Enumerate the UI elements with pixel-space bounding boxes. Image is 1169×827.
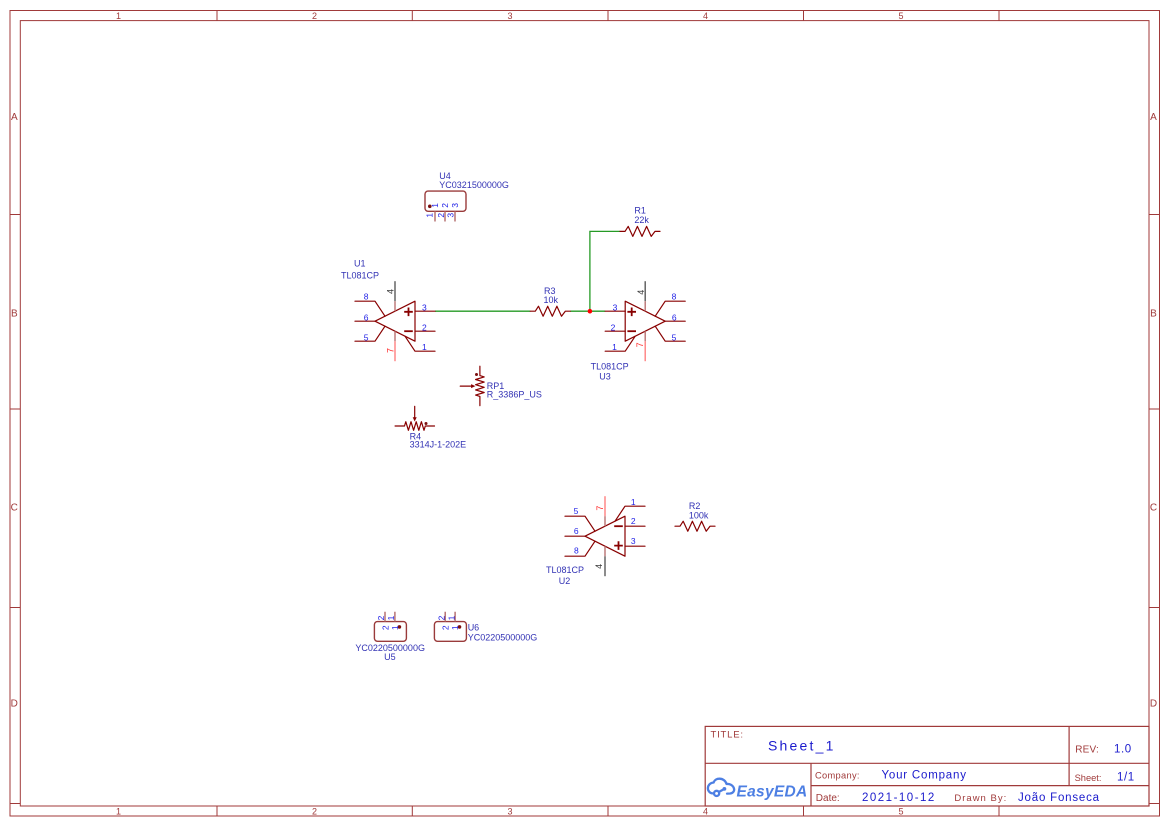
svg-text:2: 2 [631, 516, 636, 526]
svg-text:3: 3 [507, 11, 512, 21]
svg-text:TL081CP: TL081CP [341, 270, 379, 280]
svg-text:3: 3 [422, 302, 427, 312]
svg-text:Sheet:: Sheet: [1075, 773, 1102, 783]
svg-text:Company:: Company: [815, 770, 860, 780]
svg-text:3: 3 [446, 213, 456, 218]
connector U5 pin-1 dot [398, 625, 402, 629]
frame column ticks bottom [217, 806, 999, 816]
connector U4 pin-1 dot [428, 205, 432, 209]
svg-text:TL081CP: TL081CP [591, 361, 629, 371]
svg-text:7: 7 [635, 342, 645, 347]
svg-text:U5: U5 [384, 652, 396, 662]
svg-text:TITLE:: TITLE: [711, 730, 744, 741]
svg-text:João Fonseca: João Fonseca [1018, 792, 1100, 804]
svg-text:R_3386P_US: R_3386P_US [487, 390, 542, 400]
svg-text:2: 2 [312, 806, 317, 816]
frame row ticks right [1149, 215, 1160, 804]
svg-text:TL081CP: TL081CP [546, 565, 584, 575]
svg-text:7: 7 [385, 348, 395, 353]
title block divider logo cell [810, 763, 812, 806]
connector U6 pin-1 dot [458, 625, 462, 629]
svg-text:REV:: REV: [1075, 744, 1099, 755]
svg-text:2: 2 [440, 203, 450, 208]
connector U5 pins [385, 612, 395, 622]
svg-text:A: A [1150, 112, 1157, 123]
svg-text:3: 3 [613, 302, 618, 312]
svg-text:D: D [1150, 698, 1157, 709]
svg-text:1/1: 1/1 [1117, 772, 1135, 784]
svg-text:8: 8 [672, 291, 677, 301]
svg-text:6: 6 [364, 313, 369, 323]
svg-text:100k: 100k [689, 510, 709, 520]
svg-text:8: 8 [574, 546, 579, 556]
svg-text:3: 3 [631, 536, 636, 546]
svg-text:3: 3 [507, 806, 512, 816]
svg-text:5: 5 [898, 11, 903, 21]
wire vertical junction to R1 [590, 231, 620, 311]
svg-text:U6: U6 [468, 622, 480, 632]
svg-text:A: A [11, 112, 18, 123]
op-amp U3 graphics [605, 281, 685, 361]
connector U4 pins [435, 211, 455, 221]
svg-text:4: 4 [703, 806, 708, 816]
svg-text:EasyEDA: EasyEDA [737, 783, 808, 800]
svg-text:1: 1 [116, 11, 121, 21]
svg-text:D: D [11, 698, 18, 709]
svg-text:Your Company: Your Company [882, 770, 967, 782]
svg-text:B: B [1150, 309, 1157, 320]
svg-text:1: 1 [390, 625, 400, 630]
svg-text:8: 8 [364, 291, 369, 301]
connector U4 body [425, 191, 466, 211]
svg-text:Drawn By:: Drawn By: [954, 793, 1007, 804]
connector U5 body [374, 622, 406, 642]
svg-text:4: 4 [386, 289, 396, 294]
resistor R3 [530, 306, 570, 316]
svg-text:C: C [1150, 503, 1157, 514]
resistor R1 [620, 226, 660, 236]
svg-text:10k: 10k [544, 295, 559, 305]
svg-text:3314J-1-202E: 3314J-1-202E [410, 439, 467, 449]
op-amp U2 graphics (mirrored + flipped) [565, 496, 645, 576]
svg-text:6: 6 [672, 313, 677, 323]
EasyEDA logo cloud [708, 779, 734, 796]
svg-text:4: 4 [703, 11, 708, 21]
potentiometer R4 [395, 406, 434, 430]
svg-text:2021-10-12: 2021-10-12 [862, 792, 936, 804]
svg-text:1: 1 [631, 497, 636, 507]
svg-text:U2: U2 [559, 576, 571, 586]
resistor R2 [675, 521, 715, 531]
junction dot [588, 309, 593, 314]
svg-text:U3: U3 [599, 371, 611, 381]
svg-text:R2: R2 [689, 501, 701, 511]
svg-text:YC0321500000G: YC0321500000G [439, 180, 509, 190]
op-amp U1 graphics (mirrored) [355, 281, 435, 361]
svg-text:B: B [11, 309, 18, 320]
svg-text:1: 1 [116, 806, 121, 816]
title block outline [705, 726, 1149, 806]
svg-text:7: 7 [595, 506, 605, 511]
wire net U1.3 to R3.1 [435, 310, 530, 312]
svg-text:2: 2 [436, 213, 446, 218]
svg-text:1: 1 [425, 213, 435, 218]
connector U6 pins [445, 612, 455, 622]
svg-text:2: 2 [312, 11, 317, 21]
svg-text:C: C [11, 503, 18, 514]
svg-text:5: 5 [574, 506, 579, 516]
svg-text:YC0220500000G: YC0220500000G [468, 632, 538, 642]
svg-text:Date:: Date: [816, 793, 840, 804]
svg-text:2: 2 [436, 615, 446, 620]
svg-text:U1: U1 [354, 258, 366, 268]
svg-text:1: 1 [386, 615, 396, 620]
svg-text:1: 1 [450, 625, 460, 630]
frame column ticks top [217, 11, 999, 21]
frame row ticks left [10, 215, 20, 804]
connector U6 body [434, 622, 466, 642]
svg-text:1.0: 1.0 [1114, 744, 1132, 756]
svg-text:5: 5 [672, 332, 677, 342]
svg-text:22k: 22k [634, 215, 649, 225]
svg-text:Sheet_1: Sheet_1 [768, 738, 836, 754]
svg-text:4: 4 [594, 564, 604, 569]
svg-text:3: 3 [450, 203, 460, 208]
wire net R3.2 to U3.3 [570, 310, 605, 312]
svg-text:2: 2 [376, 615, 386, 620]
svg-text:2: 2 [422, 322, 427, 332]
title block row line 1 [705, 762, 1149, 764]
svg-text:4: 4 [636, 290, 646, 295]
svg-text:1: 1 [430, 203, 440, 208]
potentiometer RP1 [460, 366, 484, 405]
svg-text:1: 1 [422, 342, 427, 352]
title block divider rev/sheet [1068, 726, 1070, 785]
svg-text:1: 1 [446, 615, 456, 620]
svg-text:6: 6 [574, 526, 579, 536]
svg-text:2: 2 [611, 322, 616, 332]
svg-text:5: 5 [364, 332, 369, 342]
title block row line 2 [811, 785, 1149, 787]
svg-text:1: 1 [612, 342, 617, 352]
svg-text:R1: R1 [634, 205, 646, 215]
svg-text:5: 5 [898, 806, 903, 816]
